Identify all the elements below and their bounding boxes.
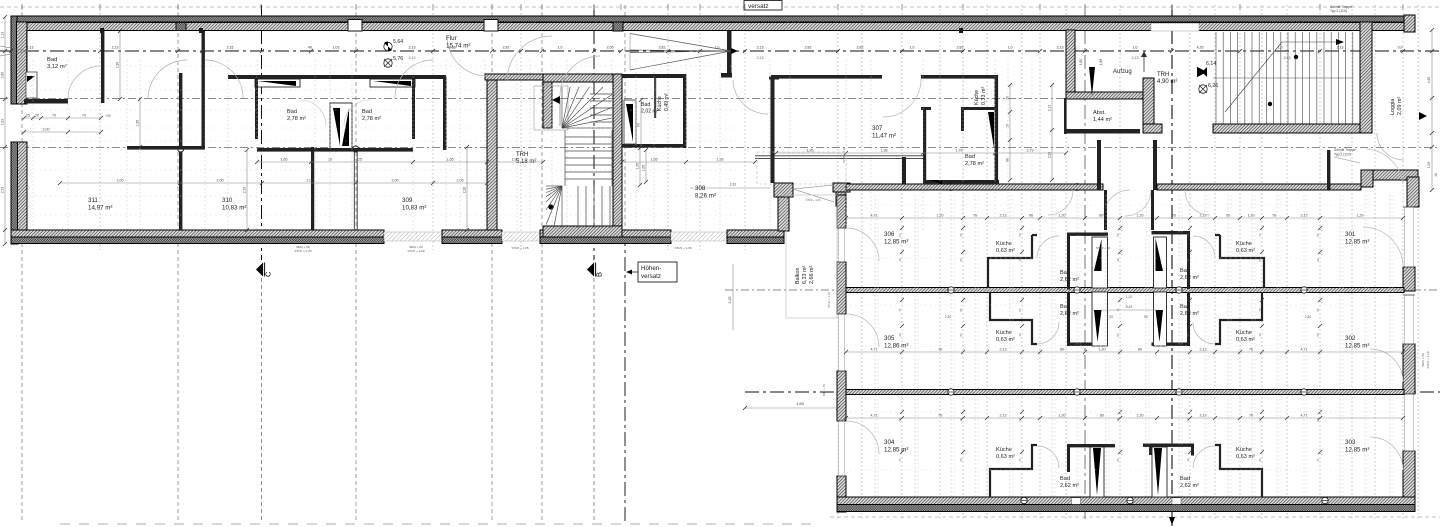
- axis vertical x1262: [1261, 5, 1263, 520]
- versatz wedge to pier: [793, 185, 834, 189]
- dotted horizontals lower building: [850, 204, 1400, 206]
- flue stack pair x335: [330, 103, 352, 151]
- axis vertical x1066: [1065, 5, 1067, 520]
- bad202 kueche049 top wall: [622, 74, 686, 78]
- svg-text:Bad: Bad: [641, 102, 650, 108]
- svg-text:4,71: 4,71: [871, 414, 878, 418]
- lower building top-left pier: [833, 183, 850, 192]
- svg-text:79: 79: [52, 114, 56, 118]
- svg-text:0,33 m²: 0,33 m²: [981, 87, 987, 105]
- svg-text:10: 10: [1018, 258, 1022, 262]
- top exterior wall stipple band: [11, 16, 1415, 22]
- axis vertical x745: [744, 5, 746, 250]
- balcony side wall right x1407: [1407, 177, 1419, 207]
- wall joint stubs below top band: [100, 28, 104, 33]
- svg-text:4,90: 4,90: [1427, 77, 1431, 84]
- elevator shaft bottom wall: [1066, 92, 1145, 99]
- svg-text:STUF + 1,20: STUF + 1,20: [1426, 351, 1430, 368]
- axis vertical x1403: [1402, 5, 1404, 520]
- thin partition x355: [353, 150, 355, 230]
- elevator door flue black wedge: [1089, 67, 1095, 96]
- svg-text:10: 10: [1018, 333, 1022, 337]
- svg-text:2,66 m²: 2,66 m²: [809, 266, 815, 284]
- row1 right door arc: [1193, 236, 1215, 258]
- lower bld top wall left part: [846, 184, 1103, 190]
- svg-text:1,20: 1,20: [1248, 214, 1255, 218]
- svg-text:1,88: 1,88: [1099, 59, 1103, 65]
- dim row y132 left: [24, 131, 101, 133]
- svg-text:2,79: 2,79: [1, 187, 5, 194]
- small fixture on lower top wall: [929, 180, 942, 184]
- wall2 nodes: [948, 389, 954, 395]
- vertical dim col x140 entry: [139, 99, 141, 147]
- dim 1.50: [745, 407, 838, 409]
- link corridor wall x1097: [1097, 140, 1101, 190]
- row1 right bad walls: [1187, 231, 1190, 289]
- svg-text:5,76: 5,76: [393, 56, 403, 62]
- svg-text:Küche: Küche: [657, 96, 663, 111]
- svg-text:301: 301: [1345, 231, 1356, 238]
- door arc balcony row3 left: [846, 421, 879, 454]
- svg-text:2,05: 2,05: [607, 46, 614, 50]
- row3 right door arc: [1193, 446, 1215, 468]
- svg-text:304: 304: [884, 439, 895, 446]
- axis vertical x700: [699, 5, 701, 250]
- svg-text:6,14: 6,14: [1206, 61, 1216, 67]
- flur right wall x727: [727, 31, 732, 74]
- svg-text:1,60: 1,60: [1, 72, 5, 79]
- svg-text:95: 95: [959, 258, 963, 262]
- row2 left kueche step walls: [990, 292, 1037, 344]
- svg-text:0,63 m²: 0,63 m²: [1236, 454, 1255, 460]
- door arc balcony row1 left: [846, 228, 879, 261]
- door arc balcony right 301: [1363, 227, 1403, 267]
- svg-text:versatz: versatz: [641, 273, 661, 280]
- door arc balcony row3 right: [1370, 437, 1403, 470]
- kueche049 divider: [654, 78, 656, 118]
- bottom exterior wall segment B: [442, 230, 502, 237]
- svg-text:12,85 m²: 12,85 m²: [1345, 446, 1369, 453]
- row2 right door arc: [1193, 322, 1215, 344]
- svg-text:4,25: 4,25: [1197, 46, 1204, 50]
- svg-text:86: 86: [898, 233, 902, 237]
- svg-text:Typ 2 (110): Typ 2 (110): [1334, 153, 1351, 157]
- svg-text:1,20: 1,20: [1126, 295, 1132, 299]
- lower bld middle wall 2: [846, 390, 1404, 395]
- svg-text:2,40: 2,40: [945, 315, 952, 319]
- axis vertical x178: [177, 5, 179, 522]
- left wall window gaps: [839, 228, 845, 262]
- svg-text:1,65: 1,65: [447, 158, 454, 162]
- kueche033 nook walls: [961, 107, 995, 110]
- svg-text:2,13: 2,13: [409, 46, 416, 50]
- section line C x261: [261, 5, 263, 260]
- svg-text:STUF + 2,20: STUF + 2,20: [407, 249, 424, 253]
- row2 left flue stack: [1092, 292, 1108, 346]
- flue core307: [988, 112, 994, 148]
- lower bld left wall segments: [837, 195, 846, 228]
- row3 right kueche step walls: [1215, 445, 1262, 497]
- axis vertical x1287: [1286, 5, 1288, 520]
- svg-text:76: 76: [938, 348, 942, 352]
- svg-text:20: 20: [1186, 233, 1190, 237]
- svg-text:307: 307: [872, 125, 883, 132]
- svg-text:5,49: 5,49: [1126, 305, 1133, 309]
- axis A horizontal y51: [0, 50, 1440, 52]
- trh490 bottom wall piece: [1143, 124, 1162, 133]
- right margin dim col: [1431, 30, 1433, 190]
- svg-text:Flur: Flur: [446, 35, 457, 42]
- small wedge left edge: [0, 46, 28, 51]
- row2 right flue stack: [1154, 292, 1167, 346]
- lower bld middle wall 1: [846, 288, 1404, 293]
- lower bld dim row y418: [846, 417, 1403, 419]
- wall 311/310 x180: [179, 73, 182, 230]
- svg-text:60: 60: [1316, 258, 1320, 262]
- svg-text:2,98: 2,98: [1048, 152, 1052, 159]
- window sill strip gap1: [384, 232, 442, 241]
- svg-text:76: 76: [1258, 308, 1262, 312]
- svg-text:1,60: 1,60: [1079, 59, 1083, 65]
- svg-text:STUF + 1,26: STUF + 1,26: [827, 292, 831, 308]
- svg-text:1,0: 1,0: [558, 46, 563, 50]
- svg-text:2,78 m²: 2,78 m²: [287, 116, 306, 122]
- axis vertical x1190: [1189, 5, 1191, 520]
- svg-text:10: 10: [1116, 258, 1120, 262]
- bad shower wall right: [370, 79, 415, 87]
- stair east wall: [613, 74, 622, 237]
- svg-text:1,98: 1,98: [881, 149, 888, 153]
- dotted verticals top building: [32, 60, 34, 230]
- door arc 306 entry: [1048, 190, 1073, 215]
- svg-text:50: 50: [1258, 258, 1262, 262]
- svg-text:Bad: Bad: [1180, 268, 1190, 274]
- axis vertical x521: [520, 5, 522, 250]
- axis vertical x862: [861, 5, 863, 520]
- dotted verticals lower building: [874, 195, 876, 497]
- svg-text:2,13: 2,13: [757, 56, 764, 60]
- dim ticks on axis y51: [9, 49, 13, 53]
- svg-text:2,00: 2,00: [307, 179, 314, 183]
- svg-text:2,62 m²: 2,62 m²: [1180, 483, 1199, 489]
- svg-text:71: 71: [1258, 233, 1262, 237]
- axis horizontal lower-building y392 heavy: [745, 391, 1440, 393]
- axis vertical x838: [837, 5, 839, 520]
- core307 wall x995: [995, 75, 999, 183]
- svg-text:76: 76: [1272, 214, 1276, 218]
- hoehenversatz wedge lines: [630, 34, 731, 52]
- svg-text:0,49 m²: 0,49 m²: [664, 93, 670, 111]
- row1 right kueche step walls: [1220, 235, 1264, 288]
- svg-text:2,62 m²: 2,62 m²: [1060, 277, 1079, 283]
- svg-text:2,82: 2,82: [659, 46, 666, 50]
- stair2 mid landing line: [1213, 77, 1353, 79]
- window sill strip gap3: [671, 232, 727, 241]
- row3 left flue stack: [1090, 447, 1104, 497]
- wall 307 bottom double line: [755, 155, 923, 157]
- stair upper treads horizontal: [590, 93, 612, 95]
- svg-text:12,85 m²: 12,85 m²: [884, 238, 908, 245]
- row3 left kueche step walls: [990, 445, 1037, 497]
- svg-text:versatz: versatz: [748, 3, 769, 10]
- balcony top wall right: [1361, 170, 1418, 180]
- svg-text:Bad: Bad: [47, 57, 57, 63]
- svg-text:STUF + 1,05: STUF + 1,05: [511, 246, 528, 250]
- axis vertical x356: [355, 5, 357, 522]
- svg-text:2,82: 2,82: [857, 46, 864, 50]
- axis vertical x433: [432, 5, 434, 250]
- dim row y183 top building: [60, 182, 487, 184]
- bottom wall nodes: [1021, 497, 1027, 503]
- stair lower flight treads fan: [561, 186, 563, 228]
- svg-text:2,13: 2,13: [1200, 348, 1207, 352]
- svg-text:Küche: Küche: [996, 241, 1012, 247]
- svg-text:2,15: 2,15: [227, 46, 234, 50]
- door arc flur stair: [507, 36, 552, 81]
- svg-text:60: 60: [1018, 233, 1022, 237]
- row1 left door arc: [1037, 236, 1059, 258]
- versatz label box: [744, 1, 782, 11]
- svg-text:60: 60: [1316, 418, 1320, 422]
- door arc room310 entry: [205, 60, 243, 98]
- svg-text:60: 60: [1186, 333, 1190, 337]
- svg-text:60: 60: [1018, 418, 1022, 422]
- svg-text:3,12 m²: 3,12 m²: [47, 64, 67, 70]
- stair direction arrow upper: [552, 96, 560, 104]
- svg-text:2,00: 2,00: [117, 179, 124, 183]
- svg-text:60: 60: [637, 123, 641, 127]
- svg-text:50: 50: [1116, 233, 1120, 237]
- vertical dim col x640 bad202: [639, 148, 641, 185]
- svg-text:STUF + 1,20: STUF + 1,20: [842, 147, 846, 163]
- svg-text:96: 96: [1029, 214, 1033, 218]
- door arc room309 entry: [395, 60, 433, 98]
- svg-text:302: 302: [1345, 335, 1356, 342]
- arrow marker right edge y115: [1419, 112, 1427, 120]
- lower bld dim row y352: [846, 351, 1403, 353]
- svg-text:11,47 m²: 11,47 m²: [872, 132, 896, 139]
- pier stair top wall: [613, 22, 623, 31]
- svg-text:76: 76: [1116, 308, 1120, 312]
- svg-text:303: 303: [1345, 439, 1356, 446]
- svg-text:4,71: 4,71: [871, 348, 878, 352]
- bottom wall small gaps: [1072, 498, 1081, 504]
- axis vertical x621 hoehenversatz line: [624, 5, 626, 232]
- axis vertical x940: [939, 5, 941, 520]
- svg-text:2,62 m²: 2,62 m²: [1060, 311, 1079, 317]
- hoehenversatz label box: [638, 262, 677, 282]
- svg-text:311: 311: [88, 197, 98, 204]
- svg-text:+20: +20: [105, 114, 111, 118]
- bad312 bottom wall: [24, 99, 68, 104]
- svg-text:0,63 m²: 0,63 m²: [996, 337, 1015, 343]
- svg-text:20: 20: [959, 233, 963, 237]
- svg-text:1,13: 1,13: [1, 32, 5, 39]
- svg-text:25: 25: [26, 114, 30, 118]
- axis vertical x1215: [1214, 5, 1216, 520]
- stair west wall upper: [543, 74, 552, 128]
- balkon outline left: [786, 195, 837, 318]
- window sill strip gap2: [502, 232, 540, 241]
- bad202 bottom wall: [622, 144, 686, 148]
- bad cluster top wall: [228, 75, 446, 79]
- svg-text:2,00: 2,00: [217, 179, 224, 183]
- svg-text:STUF + 95: STUF + 95: [1096, 246, 1111, 250]
- top wall right end cap: [1404, 15, 1415, 32]
- svg-text:2,13: 2,13: [409, 56, 416, 60]
- axis vertical x1085 heavy: [1084, 5, 1086, 522]
- svg-text:20: 20: [1258, 418, 1262, 422]
- elevation marker 6.14: [1197, 67, 1207, 77]
- svg-text:0,63 m²: 0,63 m²: [996, 248, 1015, 254]
- svg-text:80: 80: [1060, 348, 1064, 352]
- axis vertical x987: [986, 5, 988, 520]
- wall 307 bottom x902: [902, 157, 906, 190]
- svg-text:1,0: 1,0: [715, 46, 720, 50]
- svg-text:3,25: 3,25: [728, 297, 732, 304]
- axis vertical x1022: [1021, 5, 1023, 520]
- bad shower wall left: [255, 79, 300, 87]
- door arc flur right: [560, 56, 600, 96]
- svg-text:2,15: 2,15: [449, 46, 456, 50]
- stair lower newel dot: [548, 204, 553, 209]
- svg-text:76: 76: [1018, 458, 1022, 462]
- bottom exterior wall segment D: [727, 230, 784, 237]
- svg-text:305: 305: [884, 335, 895, 342]
- svg-text:1,20: 1,20: [1059, 414, 1066, 418]
- link corridor walls below y190: [1104, 190, 1107, 230]
- svg-text:STUF + 2,20: STUF + 2,20: [294, 249, 311, 253]
- svg-text:1,90: 1,90: [116, 62, 120, 69]
- svg-text:1,50: 1,50: [796, 401, 805, 406]
- svg-text:86: 86: [1018, 308, 1022, 312]
- svg-text:6,33 m²: 6,33 m²: [802, 266, 808, 284]
- svg-text:2,13: 2,13: [112, 46, 119, 50]
- building corner vertical x778: [778, 197, 789, 231]
- svg-text:95: 95: [1116, 333, 1120, 337]
- svg-text:60: 60: [1316, 333, 1320, 337]
- row3 left bad walls: [1067, 444, 1070, 472]
- stair middle flight verticals: [564, 130, 566, 186]
- svg-text:2,13: 2,13: [1048, 105, 1052, 112]
- svg-text:Schnitt Treppe: Schnitt Treppe: [1334, 148, 1356, 152]
- svg-text:2,13: 2,13: [1337, 46, 1344, 50]
- door arc hall entry: [733, 80, 768, 114]
- svg-text:2,10: 2,10: [243, 187, 247, 194]
- svg-text:2,13: 2,13: [757, 46, 764, 50]
- svg-text:4,71: 4,71: [871, 214, 878, 218]
- top wall inner hatched band: [17, 23, 1404, 31]
- svg-text:Küche: Küche: [996, 330, 1012, 336]
- axis vertical x668: [667, 5, 669, 250]
- door arc 307 top: [883, 79, 921, 117]
- door arc top wall 301: [1367, 149, 1403, 184]
- svg-text:1,20: 1,20: [1059, 214, 1066, 218]
- elevator shaft left wall: [1066, 30, 1075, 98]
- axis vertical x1418: [1417, 5, 1419, 520]
- svg-text:Loggia: Loggia: [1390, 99, 1396, 115]
- svg-text:20: 20: [1186, 418, 1190, 422]
- svg-text:Typ 2 (110): Typ 2 (110): [1330, 9, 1347, 13]
- svg-text:Aufzug: Aufzug: [1113, 69, 1132, 75]
- svg-text:2,40: 2,40: [1305, 315, 1312, 319]
- entry310 bottom wall y147: [127, 146, 205, 150]
- dim 5.49 link: [1101, 309, 1157, 311]
- svg-text:76: 76: [1172, 214, 1176, 218]
- window gap top wall near stair: [1151, 23, 1199, 31]
- svg-text:71: 71: [1316, 458, 1320, 462]
- axis horizontal y147: [0, 147, 1440, 149]
- partition wall x202: [202, 31, 205, 147]
- partition wall x311: [311, 147, 314, 230]
- row1 left kueche step walls: [988, 235, 1032, 288]
- axis horizontal below bottom wall: [830, 516, 1440, 518]
- left exterior wall lower: [11, 142, 18, 244]
- row1 left bad walls: [1067, 233, 1070, 290]
- svg-text:12,85 m²: 12,85 m²: [884, 446, 908, 453]
- window boxes on top wall: [348, 20, 362, 32]
- svg-text:2,09 m²: 2,09 m²: [1397, 97, 1403, 115]
- vertical dim col x646: [645, 150, 647, 182]
- lower bld top wall right part: [1157, 184, 1361, 190]
- right wall window gaps: [1405, 207, 1414, 267]
- axis vertical x542: [541, 5, 543, 522]
- axis vertical x1352: [1351, 5, 1353, 520]
- svg-text:20: 20: [959, 418, 963, 422]
- stair2 bottom wall / loggia wall: [1213, 124, 1372, 133]
- svg-text:1,44 m²: 1,44 m²: [1093, 117, 1112, 123]
- svg-text:Bad: Bad: [965, 154, 975, 160]
- room309 east wall x488: [487, 74, 497, 230]
- svg-text:2,13: 2,13: [1000, 414, 1007, 418]
- svg-text:0,9: 0,9: [1398, 46, 1403, 50]
- stair2 right wall: [1360, 22, 1372, 133]
- svg-text:10: 10: [1006, 124, 1010, 128]
- svg-text:2,13: 2,13: [27, 46, 34, 50]
- axis horizontal y98: [0, 98, 1085, 100]
- door arc room311 entry: [148, 60, 187, 99]
- elevator wall corner right: [1143, 78, 1154, 130]
- wall1 nodes: [948, 287, 954, 293]
- svg-text:4,90 m²: 4,90 m²: [1157, 79, 1177, 85]
- building corner hatched y183: [774, 183, 793, 197]
- svg-text:76: 76: [1006, 96, 1010, 100]
- svg-text:2,13: 2,13: [1132, 56, 1139, 60]
- svg-text:BRH + 50: BRH + 50: [822, 383, 826, 396]
- svg-text:Küche: Küche: [1236, 241, 1252, 247]
- svg-text:79: 79: [82, 114, 86, 118]
- svg-text:310: 310: [222, 197, 233, 204]
- svg-text:6,26: 6,26: [1208, 83, 1218, 89]
- stair core bottom wall: [543, 226, 622, 237]
- axis vertical x100: [99, 5, 101, 250]
- svg-text:2,82: 2,82: [503, 46, 510, 50]
- svg-text:Küche: Küche: [1236, 447, 1252, 453]
- abst left wall: [1064, 98, 1067, 134]
- svg-text:Bad: Bad: [1180, 476, 1190, 482]
- door arc bad310: [300, 100, 326, 126]
- svg-text:Küche: Küche: [1236, 330, 1252, 336]
- svg-text:2,13: 2,13: [1200, 414, 1207, 418]
- svg-text:1,25: 1,25: [1427, 162, 1431, 169]
- svg-text:1,20: 1,20: [1107, 315, 1114, 319]
- svg-text:0,63 m²: 0,63 m²: [996, 454, 1015, 460]
- svg-text:STUF + 1,06: STUF + 1,06: [674, 246, 691, 250]
- svg-text:Küche: Küche: [996, 447, 1012, 453]
- svg-text:1,95: 1,95: [807, 149, 814, 153]
- bottom exterior wall segment A: [11, 230, 384, 237]
- bottom margin faint marks: [60, 523, 70, 525]
